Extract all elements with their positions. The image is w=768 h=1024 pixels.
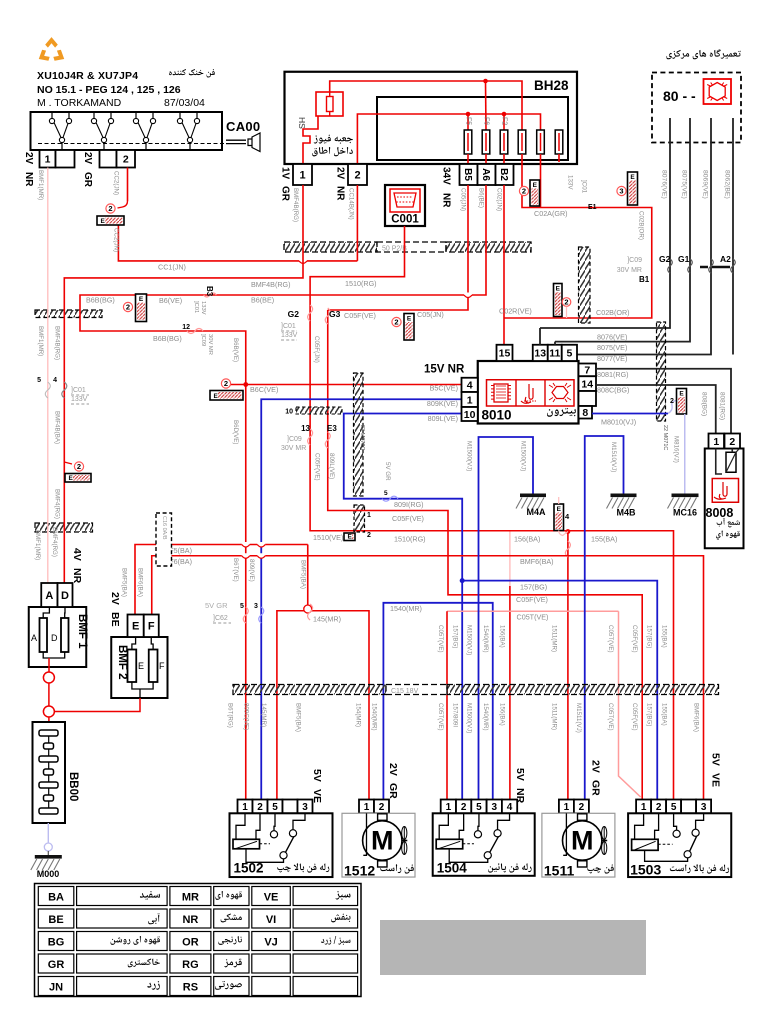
relay 1502 xyxy=(238,800,253,814)
svg-text:C05T(VE): C05T(VE) xyxy=(437,703,444,731)
svg-text:M1500(VJ): M1500(VJ) xyxy=(466,703,473,733)
svg-text:CC2(JN): CC2(JN) xyxy=(113,228,120,252)
svg-text:GR: GR xyxy=(590,780,602,796)
svg-text:C02B(OR): C02B(OR) xyxy=(596,308,630,317)
svg-text:NR: NR xyxy=(335,186,346,201)
svg-text:15: 15 xyxy=(499,348,511,360)
wire BB00 to ground xyxy=(47,823,49,843)
Saipa logo xyxy=(36,37,68,64)
wire BMF1(MR) xyxy=(47,168,49,584)
ignition switch CA00 xyxy=(31,112,223,150)
wire B6C(VE) to 8010 pin 4 xyxy=(243,382,248,387)
svg-text:M1511(VJ): M1511(VJ) xyxy=(575,703,582,733)
8010 pin 4 xyxy=(462,378,478,392)
svg-text:RG: RG xyxy=(182,959,199,971)
svg-text:A: A xyxy=(45,590,53,602)
svg-text:156(BA): 156(BA) xyxy=(499,703,506,726)
svg-text:C05F(VE): C05F(VE) xyxy=(344,311,376,320)
svg-text:5: 5 xyxy=(240,603,244,610)
svg-text:B6B(BG): B6B(BG) xyxy=(86,296,115,305)
8010 pin 14 xyxy=(579,376,597,391)
svg-text:M000: M000 xyxy=(37,869,60,879)
svg-text:10: 10 xyxy=(464,409,476,421)
fan motor 1512 xyxy=(359,800,374,814)
svg-text:]C09: ]C09 xyxy=(200,334,206,346)
svg-text:B6C(VE): B6C(VE) xyxy=(250,385,278,394)
svg-text:11: 11 xyxy=(549,348,560,360)
svg-text:5: 5 xyxy=(272,802,278,813)
svg-text:809L(VE): 809L(VE) xyxy=(428,414,458,423)
fuse output stubs xyxy=(467,154,469,165)
fuse F10 xyxy=(555,130,563,154)
svg-text:1: 1 xyxy=(713,436,719,448)
svg-text:14: 14 xyxy=(581,378,593,390)
svg-text:B5: B5 xyxy=(462,168,473,181)
svg-text:1510(VE): 1510(VE) xyxy=(313,533,343,542)
fuse box BH28 xyxy=(285,72,578,164)
svg-text:1510(RG): 1510(RG) xyxy=(394,535,426,544)
svg-text:156(BA): 156(BA) xyxy=(514,535,540,544)
svg-text:8077(VE): 8077(VE) xyxy=(597,354,627,363)
svg-text:7: 7 xyxy=(584,365,590,377)
svg-text:8081(RG): 8081(RG) xyxy=(597,370,629,379)
svg-text:155(BA): 155(BA) xyxy=(661,703,668,726)
svg-text:M1500(VJ): M1500(VJ) xyxy=(520,441,527,471)
svg-text:30V MR: 30V MR xyxy=(281,445,306,452)
svg-text:808C(BG): 808C(BG) xyxy=(597,386,629,395)
svg-text:4: 4 xyxy=(507,802,513,813)
svg-text:10: 10 xyxy=(285,409,293,416)
svg-text:BMF1(MR): BMF1(MR) xyxy=(37,170,44,200)
svg-text:155(BA): 155(BA) xyxy=(661,625,668,648)
svg-text:5V: 5V xyxy=(514,768,526,781)
svg-text:5: 5 xyxy=(671,802,677,813)
svg-text:157(BG): 157(BG) xyxy=(452,625,459,648)
wire C02(JN)/C02A(GR)/C02B(OR)/C02R(VE) xyxy=(503,185,505,345)
wire 808C(BG) pin 14 xyxy=(596,385,716,434)
svg-text:2V: 2V xyxy=(387,763,399,776)
svg-text:808(BG): 808(BG) xyxy=(701,392,708,416)
8010 pin 15 xyxy=(497,345,513,361)
svg-text:1: 1 xyxy=(367,512,371,519)
svg-text:B2: B2 xyxy=(498,168,509,181)
svg-text:BMF1(MR): BMF1(MR) xyxy=(37,326,44,356)
fuse F6 xyxy=(482,130,490,154)
svg-text:E3: E3 xyxy=(327,424,337,433)
8010 pin 13 xyxy=(533,345,548,361)
svg-text:BB00: BB00 xyxy=(67,772,79,801)
svg-text:E: E xyxy=(679,391,684,398)
svg-text:JN: JN xyxy=(49,982,63,994)
svg-text:B1: B1 xyxy=(639,275,650,284)
connector E096 xyxy=(554,504,564,531)
svg-text:C02R(VE): C02R(VE) xyxy=(499,307,532,316)
svg-text:133V: 133V xyxy=(71,396,88,403)
svg-text:2V: 2V xyxy=(335,167,346,180)
svg-text:2: 2 xyxy=(224,379,228,388)
svg-text:]C62: ]C62 xyxy=(213,615,228,622)
svg-text:2: 2 xyxy=(108,204,112,213)
svg-text:155(BA): 155(BA) xyxy=(591,535,617,544)
svg-text:8: 8 xyxy=(582,407,588,419)
svg-text:VE: VE xyxy=(264,892,279,904)
svg-text:E: E xyxy=(630,174,635,181)
svg-text:34V: 34V xyxy=(441,167,452,185)
wire M1500(VJ) loop xyxy=(479,437,534,800)
svg-text:133V: 133V xyxy=(281,332,298,339)
8010 pin 10 xyxy=(462,407,478,421)
svg-text:3: 3 xyxy=(619,187,623,196)
svg-text:E: E xyxy=(138,661,144,671)
svg-text:1: 1 xyxy=(564,802,570,813)
svg-text:B6(BE): B6(BE) xyxy=(478,188,485,208)
svg-text:809L(VE): 809L(VE) xyxy=(328,453,335,479)
svg-text:5V: 5V xyxy=(311,769,323,782)
svg-text:156(BA): 156(BA) xyxy=(499,625,506,648)
sensor 8008 xyxy=(705,449,744,549)
svg-text:E: E xyxy=(556,286,561,293)
svg-text:CC14B(JN): CC14B(JN) xyxy=(348,188,355,220)
svg-text:1V: 1V xyxy=(280,167,291,180)
svg-text:13: 13 xyxy=(534,348,546,360)
svg-text:M: M xyxy=(571,826,594,856)
svg-text:5: 5 xyxy=(566,348,572,360)
svg-text:22 M071C: 22 M071C xyxy=(662,425,668,450)
svg-text:C05F(VE): C05F(VE) xyxy=(392,514,424,523)
svg-text:BMF5(BA): BMF5(BA) xyxy=(295,703,302,732)
wire B6(BE)/B6B xyxy=(80,185,486,800)
wire 8075(VE) xyxy=(555,118,690,342)
svg-text:NR: NR xyxy=(23,172,34,187)
fuse holder BMF1 xyxy=(29,607,87,667)
ground MC16 xyxy=(672,494,699,498)
svg-text:VJ: VJ xyxy=(264,937,277,949)
svg-text:1511(MR): 1511(MR) xyxy=(551,625,558,652)
svg-text:D: D xyxy=(51,633,58,643)
svg-text:MR: MR xyxy=(182,892,199,904)
dashed box 80 xyxy=(652,73,741,143)
svg-text:8075(VE): 8075(VE) xyxy=(597,343,627,352)
svg-text:809(VE): 809(VE) xyxy=(248,559,255,582)
svg-text:BMF4(RG): BMF4(RG) xyxy=(54,489,61,519)
svg-text:BMF4B(RG): BMF4B(RG) xyxy=(54,326,61,360)
svg-text:3: 3 xyxy=(254,603,258,610)
svg-text:D: D xyxy=(61,590,69,602)
svg-text:B6D(VE): B6D(VE) xyxy=(232,420,239,444)
svg-text:A6: A6 xyxy=(480,168,491,181)
svg-text:B6B(BG): B6B(BG) xyxy=(153,334,182,343)
svg-text:M4A: M4A xyxy=(526,507,546,517)
svg-text:C02(JN): C02(JN) xyxy=(496,188,503,211)
svg-text:13: 13 xyxy=(301,424,310,433)
BH28 pin B2 xyxy=(496,164,514,185)
wire 157(BG) xyxy=(460,578,465,583)
CA00 pin 1 xyxy=(40,150,56,168)
svg-text:2: 2 xyxy=(656,802,662,813)
wire 1510(RG)/156(BA)/155(BA) xyxy=(310,226,673,800)
wire 156(BA) to 1504 pin4 xyxy=(509,532,511,587)
svg-text:C05F(VE): C05F(VE) xyxy=(631,625,638,653)
svg-text:VE: VE xyxy=(710,773,722,787)
wire 8069(VE) xyxy=(577,118,711,355)
svg-text:BMF1(MR): BMF1(MR) xyxy=(34,530,41,560)
svg-text:1: 1 xyxy=(45,154,51,166)
connector strip C350 xyxy=(35,310,102,318)
svg-text:M . TORKAMAND: M . TORKAMAND xyxy=(37,97,122,109)
svg-text:C05T(VE): C05T(VE) xyxy=(517,613,549,622)
wire CC2(JN) xyxy=(127,168,129,202)
svg-text:CA00: CA00 xyxy=(226,119,260,134)
svg-text:MC16: MC16 xyxy=(673,508,697,518)
svg-text:BMF4B(BA): BMF4B(BA) xyxy=(54,411,61,444)
svg-text:1511(MR): 1511(MR) xyxy=(551,703,558,730)
ground M000 xyxy=(35,855,62,859)
svg-text:157/809I: 157/809I xyxy=(452,703,459,727)
svg-text:3: 3 xyxy=(701,802,707,813)
wire C05T(VE) xyxy=(447,610,619,612)
svg-text:1503: 1503 xyxy=(630,861,661,877)
svg-text:2: 2 xyxy=(126,303,130,312)
svg-text:E: E xyxy=(132,621,139,633)
svg-text:B5C(VE): B5C(VE) xyxy=(430,384,458,393)
svg-text:RS: RS xyxy=(183,982,198,994)
svg-text:154(MR): 154(MR) xyxy=(355,703,362,727)
svg-text:809I(RG): 809I(RG) xyxy=(394,500,424,509)
wire 8062(BE) xyxy=(732,118,734,355)
svg-text:2V: 2V xyxy=(109,592,121,605)
svg-text:C05(JN): C05(JN) xyxy=(417,310,444,319)
connector icon xyxy=(704,79,732,104)
key symbol xyxy=(226,140,246,143)
control unit 8010 xyxy=(478,361,579,424)
wire 8076(VE) xyxy=(540,118,670,328)
svg-text:2: 2 xyxy=(77,462,81,471)
wire 8081(RG) pin 7 xyxy=(596,369,731,434)
svg-text:1540(MR): 1540(MR) xyxy=(482,625,489,653)
svg-text:8010: 8010 xyxy=(482,408,512,423)
internal bus wires xyxy=(330,81,522,130)
svg-text:8008: 8008 xyxy=(706,506,734,520)
svg-text:BMF5(BA): BMF5(BA) xyxy=(300,560,307,589)
svg-text:B6(VE): B6(VE) xyxy=(159,296,182,305)
wire BMF5(BA)/145(MR) xyxy=(135,545,308,615)
ground M4B xyxy=(611,494,637,498)
svg-text:BMF4(RG): BMF4(RG) xyxy=(51,527,58,557)
8010 pin 1 xyxy=(462,392,478,407)
svg-text:E: E xyxy=(533,182,538,189)
svg-text:NR: NR xyxy=(71,568,83,584)
8010 pin 8 xyxy=(579,406,593,419)
svg-text:2: 2 xyxy=(354,169,360,181)
connector strip 50 P2/B xyxy=(284,242,377,252)
svg-text:NR: NR xyxy=(182,914,198,926)
svg-text:1: 1 xyxy=(641,802,647,813)
svg-text:4: 4 xyxy=(467,380,473,392)
svg-text:E: E xyxy=(101,218,106,225)
svg-text:E: E xyxy=(214,393,219,400)
connector strip C100 xyxy=(35,523,93,532)
svg-text:]C09: ]C09 xyxy=(287,436,302,443)
svg-text:5V: 5V xyxy=(710,753,722,766)
svg-text:GR: GR xyxy=(82,172,93,188)
connector E12 xyxy=(354,505,365,532)
connector C16 xyxy=(156,513,172,566)
svg-text:BMF4B(RG): BMF4B(RG) xyxy=(292,188,299,222)
svg-text:F: F xyxy=(159,661,165,671)
svg-text:5V GR: 5V GR xyxy=(384,462,391,481)
svg-text:C05T(VE): C05T(VE) xyxy=(607,703,614,731)
svg-text:VI: VI xyxy=(266,914,276,926)
wire C05(JN)/C05F(VE) xyxy=(328,185,468,310)
svg-text:4V: 4V xyxy=(71,548,83,561)
svg-text:133V: 133V xyxy=(567,175,574,190)
svg-text:BE: BE xyxy=(48,914,63,926)
fuse holder BMF2 xyxy=(111,637,167,698)
svg-text:C05F(VE): C05F(VE) xyxy=(631,703,638,731)
svg-text:C05F(VE): C05F(VE) xyxy=(516,595,548,604)
svg-text:1512: 1512 xyxy=(344,862,375,878)
connector strip C15 18V xyxy=(233,685,386,695)
connector bar C02 xyxy=(579,247,591,323)
svg-text:2: 2 xyxy=(461,802,467,813)
svg-text:145(MR): 145(MR) xyxy=(313,615,341,624)
svg-text:1504: 1504 xyxy=(437,860,468,875)
svg-text:NO 15.1 - PEG 124 , 125 , 1: NO 15.1 - PEG 124 , 125 , 126 xyxy=(37,84,181,96)
svg-text:15V NR: 15V NR xyxy=(424,364,465,376)
8008 thermo icon xyxy=(712,479,738,503)
svg-text:B6(BE): B6(BE) xyxy=(251,296,274,305)
svg-text:8062(BE): 8062(BE) xyxy=(724,170,731,199)
svg-text:C15 18V: C15 18V xyxy=(391,688,419,695)
wire 1511(MR) to 1511 pin1 xyxy=(566,529,571,534)
wire HS to pin 1 xyxy=(303,116,318,165)
svg-text:G2: G2 xyxy=(288,309,300,319)
svg-text:50 P2/B: 50 P2/B xyxy=(382,246,407,253)
svg-text:22 M072C: 22 M072C xyxy=(359,425,365,450)
svg-text:]C01: ]C01 xyxy=(281,323,296,330)
connector bar C22 xyxy=(354,373,364,496)
svg-text:8076(VE): 8076(VE) xyxy=(661,170,668,199)
svg-text:BE: BE xyxy=(109,612,121,627)
wire 809K(VE) 8010 pin 1 xyxy=(261,399,461,800)
svg-text:12: 12 xyxy=(182,324,190,331)
svg-text:2: 2 xyxy=(522,187,526,196)
svg-text:809K(VE): 809K(VE) xyxy=(427,399,458,408)
svg-text:4: 4 xyxy=(53,377,57,384)
svg-text:]C01: ]C01 xyxy=(581,180,588,194)
svg-text:E: E xyxy=(348,534,353,541)
svg-text:133V: 133V xyxy=(200,301,206,315)
svg-text:1511: 1511 xyxy=(544,862,575,878)
8010 pin 7 xyxy=(579,364,597,377)
svg-text:2V: 2V xyxy=(23,152,34,165)
8010 icons xyxy=(487,380,575,406)
svg-text:157(BG): 157(BG) xyxy=(646,703,653,726)
svg-text:87/03/04: 87/03/04 xyxy=(164,97,205,109)
svg-text:1: 1 xyxy=(364,802,370,813)
svg-text:BH28: BH28 xyxy=(534,78,569,93)
BH28 pin A6 xyxy=(478,164,496,185)
svg-text:C05F(VE): C05F(VE) xyxy=(314,453,321,481)
wire M1510(VJ) loop xyxy=(585,436,624,800)
wire battery link xyxy=(43,672,54,683)
wire 809L(VE)/809I(RG) 8010 pin 10 xyxy=(344,414,462,801)
wire 1540(MR) xyxy=(383,603,492,800)
svg-text:BMF 2: BMF 2 xyxy=(116,645,128,680)
8010 pin 5 xyxy=(562,345,577,361)
CA00 pin 2 xyxy=(100,150,117,168)
svg-text:G2: G2 xyxy=(659,254,671,264)
svg-text:NR: NR xyxy=(441,193,452,208)
svg-text:G1: G1 xyxy=(678,254,690,264)
svg-text:BMF6(BA): BMF6(BA) xyxy=(520,557,554,566)
svg-text:2: 2 xyxy=(379,802,385,813)
fuse F9 xyxy=(537,130,545,154)
fan motor 1511 xyxy=(559,800,574,814)
svg-text:E: E xyxy=(69,475,74,482)
svg-text:E: E xyxy=(139,296,144,303)
svg-text:145(MR): 145(MR) xyxy=(260,703,267,727)
svg-text:5: 5 xyxy=(476,802,482,813)
svg-text:M1510(VJ): M1510(VJ) xyxy=(610,442,617,472)
svg-text:30V MR: 30V MR xyxy=(207,334,213,355)
wire BMF6(BA) xyxy=(152,556,704,800)
svg-text:BMF6(BA): BMF6(BA) xyxy=(137,568,144,597)
HS fuse icon xyxy=(316,92,343,116)
svg-text:5: 5 xyxy=(37,377,41,384)
wire BMF4B(RG) xyxy=(64,185,303,583)
svg-text:A: A xyxy=(31,633,37,643)
svg-text:1: 1 xyxy=(299,169,305,181)
svg-text:5V GR: 5V GR xyxy=(205,601,228,610)
svg-text:HS: HS xyxy=(297,117,307,129)
connector bar 22M xyxy=(657,322,666,421)
8008 pin 1 xyxy=(709,434,725,449)
svg-text:M4B: M4B xyxy=(616,508,636,518)
svg-text:2V: 2V xyxy=(82,152,93,165)
svg-text:E: E xyxy=(557,506,562,513)
8010 pin 11 xyxy=(548,345,562,361)
fuse F5 xyxy=(464,130,472,154)
svg-text:GR: GR xyxy=(48,959,65,971)
connector C001 xyxy=(385,185,425,226)
svg-text:C05T(VE): C05T(VE) xyxy=(607,625,614,653)
connector bar 10 xyxy=(296,407,342,414)
svg-text:BMF6(BA): BMF6(BA) xyxy=(693,703,700,732)
svg-text:A2: A2 xyxy=(720,254,731,264)
svg-text:8081(RG): 8081(RG) xyxy=(719,392,726,420)
svg-text:8075(VE): 8075(VE) xyxy=(681,170,688,199)
central workshops label xyxy=(667,49,741,59)
BH28 inner box xyxy=(377,97,568,160)
svg-text:F: F xyxy=(148,621,155,633)
svg-text:B6T(VE): B6T(VE) xyxy=(232,558,239,582)
svg-text:157(BG): 157(BG) xyxy=(646,625,653,648)
svg-text:M: M xyxy=(371,826,394,856)
svg-text:BG: BG xyxy=(48,937,65,949)
svg-text:2: 2 xyxy=(394,318,398,327)
svg-text:1540(MR): 1540(MR) xyxy=(482,703,489,731)
svg-text:E: E xyxy=(407,316,412,323)
svg-text:B6T(RG): B6T(RG) xyxy=(227,703,234,728)
svg-text:2: 2 xyxy=(257,802,263,813)
svg-text:C05(JN): C05(JN) xyxy=(460,188,467,211)
svg-text:C001: C001 xyxy=(391,214,419,226)
svg-text:M816(VJ): M816(VJ) xyxy=(673,436,680,463)
svg-text:809C(VE): 809C(VE) xyxy=(243,703,250,730)
svg-text:3: 3 xyxy=(302,802,308,813)
relay 1504 xyxy=(441,800,456,814)
